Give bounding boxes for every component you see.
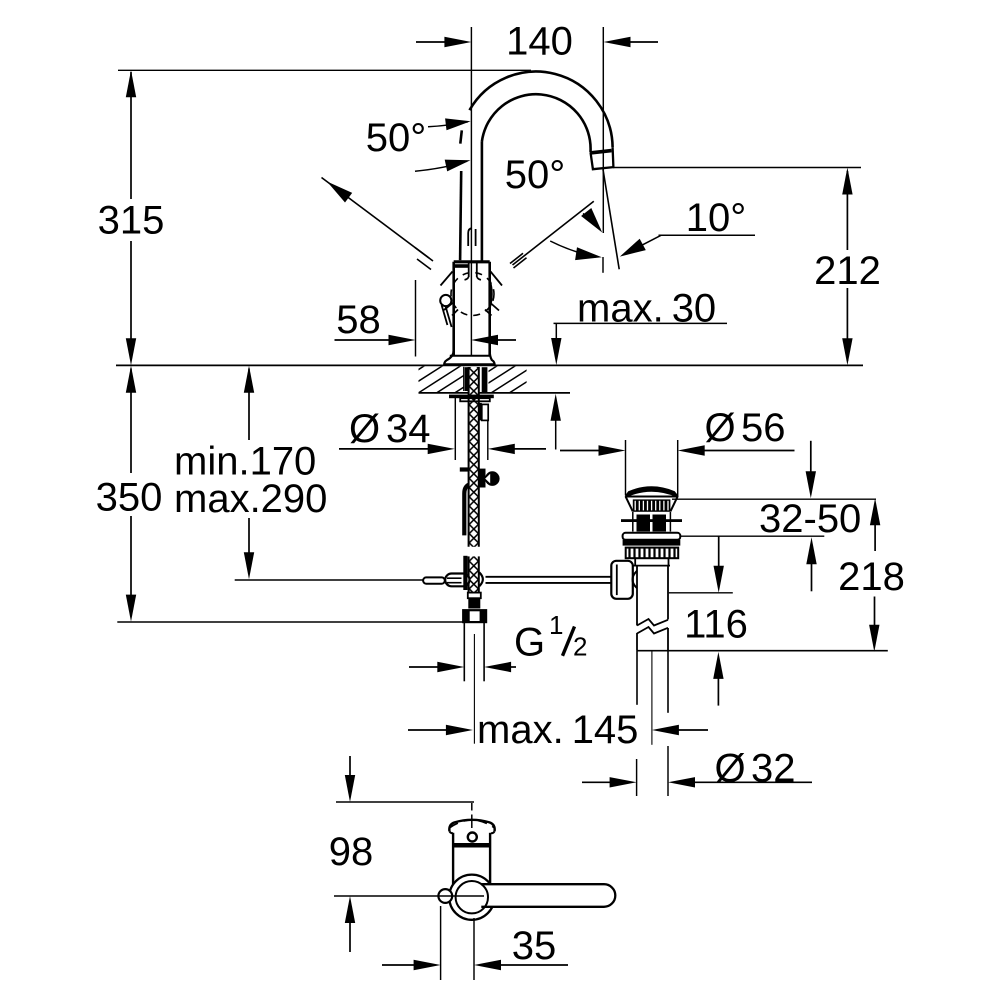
svg-text:56: 56 xyxy=(741,406,786,450)
svg-text:2: 2 xyxy=(573,632,587,662)
svg-text:32: 32 xyxy=(751,747,796,791)
svg-text:32-50: 32-50 xyxy=(759,497,861,541)
svg-text:1: 1 xyxy=(549,610,563,640)
svg-text:50°: 50° xyxy=(366,116,427,160)
svg-text:34: 34 xyxy=(386,407,431,451)
svg-text:212: 212 xyxy=(814,249,881,293)
svg-text:315: 315 xyxy=(98,199,165,243)
svg-text:58: 58 xyxy=(336,298,381,342)
svg-text:35: 35 xyxy=(512,924,557,968)
svg-text:98: 98 xyxy=(329,830,374,874)
svg-text:140: 140 xyxy=(506,20,573,64)
svg-text:350: 350 xyxy=(96,476,163,520)
svg-text:max.290: max.290 xyxy=(174,477,327,521)
svg-text:10°: 10° xyxy=(686,196,747,240)
svg-text:G: G xyxy=(514,621,545,665)
svg-text:218: 218 xyxy=(838,555,905,599)
svg-text:Ø: Ø xyxy=(715,747,746,791)
svg-text:Ø: Ø xyxy=(705,406,736,450)
svg-text:50°: 50° xyxy=(505,153,566,197)
svg-text:116: 116 xyxy=(684,603,748,647)
svg-text:Ø: Ø xyxy=(349,407,380,451)
svg-text:max. 145: max. 145 xyxy=(477,708,638,752)
